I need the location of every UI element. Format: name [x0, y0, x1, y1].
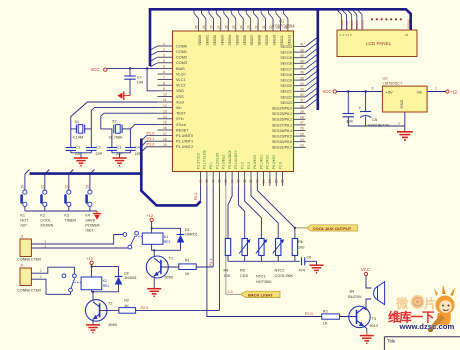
svg-text:4.19M: 4.19M — [73, 135, 84, 139]
voltage regulator U2 LM7805CT — [372, 76, 438, 113]
svg-text:COM0: COM0 — [340, 20, 344, 29]
svg-text:SEG03: SEG03 — [220, 35, 224, 46]
svg-text:19: 19 — [163, 143, 167, 147]
svg-text:Title: Title — [387, 338, 396, 343]
svg-text:24: 24 — [239, 25, 243, 29]
svg-text:LCD PANEL: LCD PANEL — [366, 41, 392, 46]
svg-text:SEG22: SEG22 — [280, 95, 292, 99]
resistor/thermistor NTC1 — [256, 239, 267, 262]
push button K1 HOT/UP — [20, 170, 29, 228]
svg-text:+: + — [359, 106, 362, 111]
svg-text:www.dzsc.com: www.dzsc.com — [399, 322, 455, 331]
U1 left pins 1-19 with numbers and names — [147, 42, 194, 149]
svg-text:9013: 9013 — [370, 324, 378, 328]
LCD panel SEG00 pin — [406, 16, 410, 30]
svg-text:23: 23 — [85, 185, 89, 189]
wire U2 output to +12 — [427, 91, 445, 93]
capacitor C1 22P — [66, 146, 83, 156]
wire J2 pin 2 to relay2 contact — [31, 267, 74, 274]
svg-text:29: 29 — [262, 179, 266, 183]
svg-text:104: 104 — [137, 81, 143, 85]
svg-text:6: 6 — [163, 70, 165, 74]
svg-text:SEG24/P8.0: SEG24/P8.0 — [272, 107, 292, 111]
svg-text:SEG31/P8.7: SEG31/P8.7 — [272, 146, 292, 150]
svg-text:1000UF/16V: 1000UF/16V — [367, 123, 390, 128]
svg-text:REL: REL — [103, 284, 110, 288]
svg-text:25: 25 — [232, 25, 236, 29]
svg-text:VCC: VCC — [91, 67, 100, 72]
wire R3 to T3 base — [340, 316, 357, 318]
svg-text:GND: GND — [399, 100, 404, 109]
svg-text:P3.0/TCL0: P3.0/TCL0 — [196, 153, 200, 169]
svg-text:P3.1/TCLOB: P3.1/TCLOB — [203, 150, 207, 169]
wire P0.3 column (key bus) — [200, 186, 202, 201]
svg-text:P1.2: P1.2 — [147, 143, 155, 147]
relay K1 coil — [142, 233, 171, 244]
svg-text:CDS: CDS — [240, 274, 248, 278]
svg-text:104: 104 — [346, 119, 353, 124]
svg-text:+12: +12 — [146, 213, 154, 218]
svg-text:TIMER: TIMER — [64, 219, 76, 223]
wire VDD branch (VCC to pin 9) — [147, 68, 157, 90]
svg-text:P2.0: P2.0 — [305, 312, 313, 316]
wire P2.3 column to backlight — [226, 186, 241, 294]
svg-text:39: 39 — [300, 54, 304, 58]
svg-text:XTout: XTout — [176, 123, 187, 127]
svg-text:SEG27/P8.3: SEG27/P8.3 — [272, 123, 292, 127]
svg-text:SEG14: SEG14 — [280, 51, 292, 55]
ground symbol crystal 2 — [113, 153, 127, 166]
watermark faint orange characters — [395, 295, 437, 311]
svg-text:SEG13: SEG13 — [280, 45, 292, 49]
svg-text:18: 18 — [163, 137, 167, 141]
svg-text:C7: C7 — [137, 76, 142, 80]
svg-text:34: 34 — [230, 179, 234, 183]
svg-text:32: 32 — [300, 93, 304, 97]
svg-text:SEG23: SEG23 — [280, 101, 292, 105]
wire P2.1 column to R1 — [212, 186, 214, 267]
svg-text:38: 38 — [300, 60, 304, 64]
svg-text:36: 36 — [300, 71, 304, 75]
svg-text:8: 8 — [163, 81, 165, 85]
push button K2 COOL/DOWN — [40, 170, 53, 228]
svg-text:38: 38 — [205, 179, 209, 183]
wire segment bus top (SEG bus to LCD) — [150, 9, 411, 30]
svg-text:22: 22 — [254, 25, 258, 29]
svg-text:SEG28/P8.4: SEG28/P8.4 — [272, 129, 292, 133]
wire +12 to relay2/D2 rail — [91, 265, 93, 278]
svg-text:20: 20 — [20, 185, 24, 189]
svg-text:D1: D1 — [185, 228, 190, 232]
svg-text:/DOWN: /DOWN — [40, 224, 53, 228]
svg-text:23: 23 — [300, 144, 304, 148]
svg-text:SAVE: SAVE — [85, 219, 95, 223]
svg-text:COM1: COM1 — [345, 20, 349, 29]
wire P1.0-P1.2 diagonals to key bus — [141, 136, 146, 152]
svg-text:COOL/96K: COOL/96K — [275, 274, 294, 278]
svg-text:C3: C3 — [117, 146, 122, 150]
svg-text:VCC: VCC — [323, 89, 332, 94]
LCD panel module — [337, 30, 417, 57]
wire C1-C2 ground rail — [71, 152, 92, 154]
wire VCC to BIAS pin 5 — [107, 67, 158, 69]
svg-text:LM7805CT: LM7805CT — [383, 80, 403, 85]
diode D1 1N4001 — [177, 228, 198, 250]
svg-text:SEG25/P8.1: SEG25/P8.1 — [272, 112, 292, 116]
svg-text:27: 27 — [300, 121, 304, 125]
svg-text:SEG07: SEG07 — [250, 35, 254, 46]
wire R1 to P2.1 line — [196, 266, 213, 268]
node junction at C9 — [347, 90, 349, 92]
svg-text:28: 28 — [300, 116, 304, 120]
connector J2 — [17, 264, 41, 293]
svg-text:20: 20 — [269, 25, 273, 29]
svg-text:R1: R1 — [185, 259, 190, 263]
svg-text:28: 28 — [210, 25, 214, 29]
svg-text:33: 33 — [237, 179, 241, 183]
svg-text:P2.2: P2.2 — [241, 162, 245, 169]
svg-text:VLC0: VLC0 — [176, 72, 186, 76]
svg-text:X2: X2 — [112, 120, 117, 124]
svg-text:10K: 10K — [224, 274, 231, 278]
power ground arrow (C7 return) — [117, 91, 130, 100]
transistor T2 8050 — [85, 300, 119, 327]
svg-text:32.768K: 32.768K — [109, 135, 124, 139]
svg-text:33: 33 — [300, 88, 304, 92]
svg-text:VLC2: VLC2 — [176, 84, 186, 88]
capacitor 104 (regulator input bypass) — [343, 92, 355, 127]
wire segment bus left vertical (COM lines) — [149, 8, 152, 66]
wire cool aux output tap — [295, 227, 307, 229]
resistor/thermistor NTC2 — [273, 239, 284, 262]
wire segment bus right vertical (SEG13-22 collector) — [316, 8, 319, 110]
node junction at C5 — [364, 90, 366, 92]
wire VCC rail to U2 — [337, 91, 383, 93]
wire sensor common rail — [228, 260, 300, 262]
svg-text:17: 17 — [163, 132, 167, 136]
svg-text:P2.0: P2.0 — [278, 162, 282, 169]
svg-text:27: 27 — [274, 179, 278, 183]
svg-text:R4: R4 — [224, 269, 229, 273]
svg-text:SEG16: SEG16 — [280, 62, 292, 66]
svg-text:24: 24 — [300, 138, 304, 142]
capacitor C3 22P — [107, 146, 124, 156]
svg-text:2.3: 2.3 — [228, 290, 233, 294]
svg-text:11: 11 — [163, 98, 167, 102]
svg-text:P1.2/INT2: P1.2/INT2 — [176, 145, 193, 149]
capacitor C7 104 — [124, 68, 143, 95]
svg-text:21: 21 — [40, 185, 44, 189]
svg-text:BIAS: BIAS — [176, 67, 185, 71]
svg-text:SEG08: SEG08 — [258, 35, 262, 46]
svg-text:R6: R6 — [298, 240, 303, 244]
svg-text:COM2: COM2 — [176, 56, 187, 60]
svg-text:P1.0/INT0: P1.0/INT0 — [176, 134, 193, 138]
svg-text:8050: 8050 — [165, 276, 173, 280]
svg-text:1: 1 — [40, 275, 42, 279]
svg-text:1K: 1K — [124, 304, 129, 308]
svg-text:VCC: VCC — [361, 267, 370, 272]
wire relay2 bottom rail to D2 and T2 — [92, 290, 119, 292]
svg-text:NTC2: NTC2 — [275, 269, 285, 273]
svg-text:30: 30 — [300, 104, 304, 108]
svg-text:K2: K2 — [40, 214, 45, 218]
svg-text:VLC1: VLC1 — [176, 78, 186, 82]
transistor T3 9013 — [349, 306, 378, 331]
wire key common rail — [25, 210, 97, 212]
svg-text:C6: C6 — [307, 256, 312, 260]
wire +12 to relay1/D1 rail — [151, 222, 153, 233]
svg-text:K2: K2 — [103, 279, 107, 283]
svg-text:SEG17: SEG17 — [280, 67, 292, 71]
wire VCC to buzzer — [366, 276, 371, 288]
crystal X1 4.19M — [71, 120, 92, 139]
svg-text:37: 37 — [211, 179, 215, 183]
svg-text:J2: J2 — [20, 264, 24, 268]
svg-text:3: 3 — [372, 87, 374, 91]
svg-text:19: 19 — [277, 25, 281, 29]
wire U1 pin to sensor R6 — [257, 186, 295, 239]
svg-text:P3.2/VLO0: P3.2/VLO0 — [215, 153, 219, 169]
power symbol VCC (regulator input) — [323, 89, 337, 94]
svg-text:SEG06: SEG06 — [243, 35, 247, 46]
svg-text:C2: C2 — [96, 146, 101, 150]
resistor/thermistor R5 — [239, 239, 250, 262]
ground symbol T2 emitter — [86, 325, 100, 333]
svg-text:+12: +12 — [450, 90, 458, 95]
svg-text:2: 2 — [398, 122, 400, 126]
svg-text:RESET: RESET — [176, 128, 189, 132]
svg-text:P1.1/INT1: P1.1/INT1 — [176, 140, 193, 144]
svg-text:31: 31 — [249, 179, 253, 183]
svg-text:XTin: XTin — [176, 117, 184, 121]
svg-text:X1: X1 — [75, 120, 80, 124]
svg-text:COM3: COM3 — [355, 20, 359, 29]
svg-text:P6.0/KS0: P6.0/KS0 — [253, 155, 257, 169]
svg-text:COOL: COOL — [40, 219, 51, 223]
wire TEST/XTin to X2/C3 — [101, 113, 158, 147]
svg-text:10: 10 — [163, 93, 167, 97]
svg-text:1: 1 — [435, 87, 437, 91]
watermark mascot — [428, 285, 455, 332]
svg-text:7: 7 — [163, 76, 165, 80]
svg-text:BACK LIGHT: BACK LIGHT — [248, 292, 273, 297]
relay 1 contact circles — [123, 231, 142, 249]
svg-text:SEG20: SEG20 — [280, 84, 292, 88]
svg-text:22P: 22P — [135, 152, 142, 156]
svg-text:29: 29 — [300, 110, 304, 114]
svg-text:REL: REL — [164, 240, 171, 244]
wire P2.0 column to R3 — [207, 186, 322, 317]
svg-text:CONNECTER: CONNECTER — [17, 289, 41, 293]
svg-text:1: 1 — [163, 42, 165, 46]
svg-text:B4: B4 — [350, 290, 355, 294]
wire segment keyboard bus (P1.x to keys) — [141, 139, 200, 206]
svg-text:K4: K4 — [85, 214, 90, 218]
transistor T1 8050 — [146, 256, 179, 288]
U1 right pins SEG13-SEG31 — [272, 38, 316, 150]
svg-text:26: 26 — [225, 25, 229, 29]
svg-text:13: 13 — [163, 109, 167, 113]
svg-text:/UP: /UP — [20, 224, 27, 228]
svg-text:SEG21: SEG21 — [280, 90, 292, 94]
svg-text:P3.3/BUZ: P3.3/BUZ — [222, 155, 226, 169]
svg-text:474: 474 — [299, 269, 305, 273]
svg-text:COM1: COM1 — [176, 50, 187, 54]
flag BACK LIGHT — [241, 291, 280, 297]
svg-text:SEG15: SEG15 — [280, 56, 292, 60]
wire U1 pin to sensor R4 — [228, 186, 232, 239]
svg-text:TEST: TEST — [176, 112, 186, 116]
ground symbol T3 emitter — [360, 332, 374, 344]
title block frame — [384, 337, 460, 350]
svg-text:SEG04: SEG04 — [228, 35, 232, 46]
svg-text:37: 37 — [300, 65, 304, 69]
wire buzzer to T3 collector — [366, 299, 371, 307]
svg-text:28: 28 — [268, 179, 272, 183]
svg-text:C4: C4 — [135, 146, 140, 150]
svg-text:BUZ/5V: BUZ/5V — [348, 295, 362, 299]
svg-text:3: 3 — [163, 53, 165, 57]
svg-text:微: 微 — [395, 296, 409, 311]
svg-text:CONNECTER: CONNECTER — [17, 258, 41, 262]
capacitor C5 1000UF/16V electrolytic — [359, 92, 390, 128]
svg-text:1K: 1K — [185, 272, 190, 276]
svg-text:27: 27 — [217, 25, 221, 29]
svg-text:15: 15 — [163, 121, 167, 125]
svg-text:T2: T2 — [108, 302, 112, 306]
power symbol +12 (relay 2) — [86, 256, 94, 264]
svg-text:18: 18 — [284, 25, 288, 29]
power symbol VCC (buzzer) — [361, 267, 370, 276]
svg-text:Xin: Xin — [176, 106, 182, 110]
power ground arrow (key rail) — [93, 211, 101, 220]
svg-text:SEG18: SEG18 — [280, 73, 292, 77]
wire U1 pin to sensor NTC2 — [251, 186, 278, 239]
resistor R1 1K — [179, 259, 196, 277]
svg-text:30: 30 — [256, 179, 260, 183]
wire C3-C4 ground rail — [112, 152, 130, 154]
svg-text:1: 1 — [45, 244, 47, 248]
wire U1 pin to sensor R5 — [238, 186, 244, 239]
svg-text:26: 26 — [300, 127, 304, 131]
ground symbol sensor rail — [310, 261, 324, 273]
wire P2.2 column — [219, 186, 221, 310]
power symbol +12 output — [446, 90, 458, 95]
svg-text:35: 35 — [300, 76, 304, 80]
svg-text:P8.1: P8.1 — [209, 162, 213, 169]
svg-text:35: 35 — [224, 179, 228, 183]
ground symbol crystal 1 — [74, 153, 88, 166]
resistor/thermistor R4 — [225, 239, 230, 262]
svg-text:SEG10: SEG10 — [273, 35, 277, 46]
resistor R3 1K — [322, 309, 340, 325]
svg-text:2: 2 — [163, 48, 165, 52]
wire U1 pin to sensor NTC1 — [245, 186, 262, 239]
wire J2 pin 1 to relay2 common — [31, 279, 70, 294]
svg-text:P2.1: P2.1 — [209, 259, 213, 266]
svg-text:VDD: VDD — [176, 89, 184, 93]
svg-text:COM0: COM0 — [176, 44, 187, 48]
svg-text:P1.1: P1.1 — [147, 137, 155, 141]
power symbol +12 (relay 1) — [146, 213, 154, 222]
svg-text:SEG02: SEG02 — [213, 35, 217, 46]
svg-text:C5: C5 — [372, 117, 378, 122]
svg-text:SEG05: SEG05 — [235, 35, 239, 46]
svg-text:/SET: /SET — [85, 229, 94, 233]
flag COOL AUX OUTPUT — [306, 225, 357, 231]
svg-text:R5: R5 — [240, 269, 245, 273]
relay K2 coil — [81, 277, 110, 290]
svg-text:100: 100 — [298, 246, 304, 250]
svg-text:23: 23 — [247, 25, 251, 29]
svg-text:P6.1/KS1: P6.1/KS1 — [259, 155, 263, 169]
svg-text:8050: 8050 — [109, 323, 117, 327]
node junction C7 — [129, 67, 131, 69]
svg-text:SEG30/P8.6: SEG30/P8.6 — [272, 140, 292, 144]
LCD panel ellipsis dots — [371, 18, 402, 20]
svg-text:D2: D2 — [124, 272, 129, 276]
buzzer B4 BUZ/5V — [348, 282, 384, 305]
svg-text:C1: C1 — [75, 146, 80, 150]
svg-text:P5.1/LCDSY: P5.1/LCDSY — [234, 150, 238, 169]
watermark text weiku — [388, 310, 454, 332]
svg-text:K3: K3 — [64, 214, 69, 218]
svg-text:P5.0/LCDCK: P5.0/LCDCK — [228, 149, 232, 169]
svg-text:22: 22 — [64, 185, 68, 189]
svg-text:SEG09: SEG09 — [265, 35, 269, 46]
svg-text:40: 40 — [300, 48, 304, 52]
svg-text:14: 14 — [163, 115, 167, 119]
svg-text:25: 25 — [300, 132, 304, 136]
svg-text:SEG31: SEG31 — [360, 19, 364, 29]
U1 top pins SEG00-SEG12 — [194, 11, 292, 46]
svg-text:31: 31 — [300, 99, 304, 103]
svg-text:SEG26/P8.2: SEG26/P8.2 — [272, 118, 292, 122]
svg-text:NTC1: NTC1 — [256, 275, 266, 279]
svg-text:36: 36 — [218, 179, 222, 183]
svg-text:R3: R3 — [323, 309, 328, 313]
svg-text:4: 4 — [163, 59, 165, 63]
svg-text:COOL AUX OUTPUT: COOL AUX OUTPUT — [313, 226, 352, 231]
svg-text:32: 32 — [243, 179, 247, 183]
svg-text:2: 2 — [40, 269, 42, 273]
wire Xout to X1 — [71, 102, 158, 147]
relay 2 contact circles — [62, 274, 81, 292]
svg-text:41: 41 — [300, 43, 304, 47]
push button K4 SAVEPOWER — [85, 170, 100, 228]
svg-text:5: 5 — [163, 65, 165, 69]
wire Xin to X1/C2 — [91, 108, 157, 148]
svg-text:9: 9 — [163, 87, 165, 91]
svg-text:SEG00: SEG00 — [406, 19, 410, 29]
wire COM0-COM3 diagonals to bus — [150, 46, 158, 67]
push button K3 TIMER — [64, 170, 76, 223]
capacitor C4 22P — [125, 146, 142, 156]
svg-text:P2.2: P2.2 — [141, 306, 149, 310]
svg-text:P6.3/KS3: P6.3/KS3 — [272, 155, 276, 169]
op-amp U1 microcontroller KS57C2304 body — [173, 19, 296, 172]
svg-text:J1: J1 — [20, 235, 24, 239]
resistor R2 1K — [119, 299, 136, 314]
wire J1 pin 1 to relay common — [31, 247, 128, 249]
svg-text:SEG12: SEG12 — [288, 35, 292, 46]
svg-text:COM2: COM2 — [350, 20, 354, 29]
ground symbol below U2 — [397, 132, 413, 140]
svg-text:1N4001: 1N4001 — [185, 233, 198, 237]
svg-text:26: 26 — [405, 33, 409, 37]
LCD panel left pins COM0-COM3/SEG31 — [337, 10, 364, 30]
